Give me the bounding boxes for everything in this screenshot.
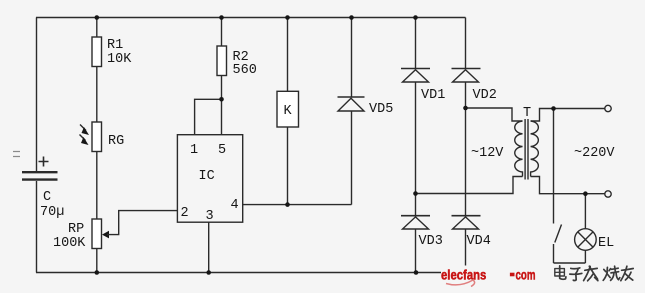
node pin5 R2 (219, 97, 224, 102)
wire R2 top lead (221, 18, 223, 47)
wire relay K top lead (287, 18, 289, 92)
wire IC pin1-pin5 tie (195, 99, 222, 134)
diode VD4 (452, 216, 491, 249)
svg-text:com: com (516, 268, 536, 283)
svg-text:10K: 10K (107, 52, 132, 67)
node top VD1 (413, 15, 418, 20)
char fa (584, 266, 598, 281)
diode VD1 (401, 69, 445, 104)
char you (621, 266, 633, 281)
wire bottom rail (36, 272, 466, 274)
svg-text:3: 3 (206, 209, 214, 224)
resistor R1 (92, 37, 132, 67)
svg-text:2: 2 (181, 206, 189, 221)
node K pin4 (285, 202, 290, 207)
svg-text:VD4: VD4 (467, 234, 491, 249)
svg-text:R1: R1 (107, 38, 123, 53)
potentiometer RP (53, 219, 109, 251)
transformer T1 (471, 106, 538, 180)
wire lamp bottom lead (584, 250, 586, 263)
svg-text:VD3: VD3 (419, 234, 443, 249)
wire IC pin3 lead (208, 222, 210, 272)
wire VD1 column (415, 18, 417, 273)
wire secondary top (531, 109, 605, 122)
node lamp top (583, 191, 588, 196)
wire left rail upper (36, 18, 38, 172)
wire secondary bottom (531, 177, 605, 194)
watermark elecfans.com (441, 266, 545, 287)
svg-text:~220V: ~220V (574, 146, 615, 161)
node VD1 primary (413, 191, 418, 196)
wire RP bottom lead (96, 248, 98, 273)
svg-text:VD1: VD1 (421, 88, 445, 103)
svg-text:4: 4 (231, 198, 239, 213)
svg-text:EL: EL (598, 236, 614, 251)
switch S1 (554, 109, 562, 264)
terminal lower (605, 191, 611, 197)
node bottom VD3 (414, 270, 419, 275)
wire switch-lamp bottom (554, 262, 586, 264)
char shao (603, 266, 620, 280)
svg-text:IC: IC (199, 169, 215, 184)
lamp EL (575, 229, 615, 251)
op-amp U1 IC box (177, 135, 242, 224)
wire VD5 bottom lead (351, 111, 353, 205)
wire R2 bottom lead (221, 76, 223, 100)
wire VD2 column (465, 18, 467, 273)
resistor R2 (217, 46, 257, 78)
svg-text:~12V: ~12V (471, 146, 504, 161)
svg-text:5: 5 (218, 143, 226, 158)
svg-text:T: T (523, 106, 531, 121)
diode VD2 (452, 69, 497, 104)
node VD2 primary (463, 106, 468, 111)
char zi (570, 268, 582, 281)
diode VD3 (401, 216, 443, 249)
wire IC pin4 lead (243, 204, 352, 206)
artifact mark left edge (13, 152, 20, 157)
photoresistor RG (80, 122, 125, 152)
wire bridge to primary bottom (416, 177, 523, 194)
wire RP wiper (107, 211, 177, 235)
node bottom pin3 (206, 270, 211, 275)
svg-text:RG: RG (108, 134, 124, 149)
node top VD5 (349, 15, 354, 20)
terminal upper (605, 105, 611, 111)
wire R1-RG lead (96, 67, 98, 123)
wire bridge to primary top (466, 108, 523, 121)
relay coil K (277, 91, 299, 127)
svg-text:VD5: VD5 (369, 102, 393, 117)
svg-text:K: K (284, 104, 293, 119)
svg-text:RP: RP (68, 222, 84, 237)
wire top rail (36, 17, 466, 19)
wire VD5 top lead (351, 18, 353, 98)
svg-text:C: C (43, 190, 51, 205)
svg-text:1: 1 (190, 143, 198, 158)
char dian (555, 266, 566, 279)
watermark chinese text (555, 266, 633, 281)
svg-text:560: 560 (233, 63, 257, 78)
svg-text:100K: 100K (53, 236, 86, 251)
wire relay K bottom lead (287, 127, 289, 205)
capacitor C1 (22, 157, 64, 221)
node secondary top (551, 106, 556, 111)
node top R2 (219, 15, 224, 20)
node bottom R column (95, 270, 100, 275)
node top K (285, 15, 290, 20)
wire lamp top lead (584, 194, 586, 229)
wire left rail lower (36, 181, 38, 273)
node top R1 (95, 15, 100, 20)
svg-text:VD2: VD2 (473, 88, 497, 103)
diode VD5 (338, 97, 394, 117)
svg-text:70µ: 70µ (40, 205, 64, 220)
wire R1 top lead (96, 18, 98, 38)
svg-text:elecfans: elecfans (441, 268, 486, 283)
wire RG-RP lead (96, 152, 98, 220)
